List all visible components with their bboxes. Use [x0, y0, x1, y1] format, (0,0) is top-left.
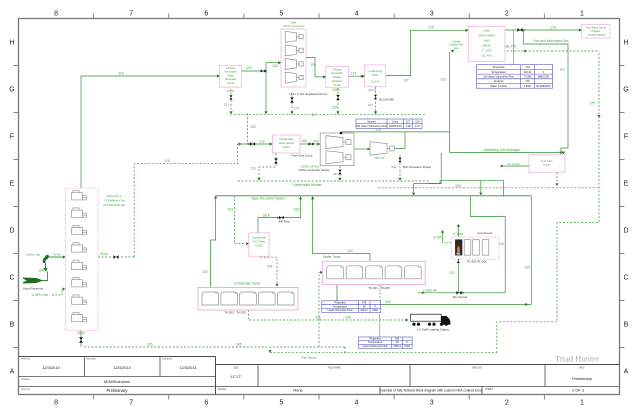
svg-text:D: D — [9, 228, 14, 235]
svg-text:Condensate: Condensate — [279, 137, 294, 141]
svg-text:D: D — [623, 228, 628, 235]
svg-text:ECON-NB: ECON-NB — [379, 98, 393, 102]
svg-text:Temperature: Temperature — [333, 305, 348, 308]
svg-text:Separator: Separator — [225, 77, 237, 81]
svg-text:2: 2 — [505, 11, 509, 18]
svg-text:176: 176 — [525, 79, 530, 83]
svg-text:176: 176 — [550, 25, 556, 29]
svg-text:TK-201 - TK-205: TK-201 - TK-205 — [224, 311, 246, 315]
svg-text:140: 140 — [347, 249, 353, 253]
svg-text:201: 201 — [340, 267, 343, 269]
svg-text:A: A — [10, 369, 15, 376]
svg-text:Comb Air: Comb Air — [423, 289, 437, 293]
svg-text:Condensate: Condensate — [252, 235, 267, 239]
svg-text:G: G — [9, 87, 14, 94]
svg-text:Example of fully fictional bl: Example of fully fictional block diagram… — [380, 389, 483, 393]
svg-text:None: None — [293, 388, 303, 393]
svg-text:PRINTED: PRINTED — [21, 359, 31, 361]
svg-text:LWH4: LWH4 — [39, 269, 48, 273]
svg-text:E: E — [10, 181, 15, 188]
svg-text:MMSCFD: MMSCFD — [538, 75, 550, 79]
svg-text:Preliminary: Preliminary — [572, 376, 592, 381]
svg-text:3: 3 — [430, 11, 434, 18]
svg-text:221A: 221A — [227, 89, 235, 93]
svg-text:BP Reg: BP Reg — [279, 219, 290, 223]
svg-text:FRC Separator Shutup: FRC Separator Shutup — [403, 165, 432, 169]
svg-text:Triad Hunter: Triad Hunter — [555, 354, 599, 364]
svg-text:205: 205 — [418, 267, 421, 269]
svg-text:~ 78.2(3) MMscfd: ~ 78.2(3) MMscfd — [586, 34, 606, 37]
svg-text:230: 230 — [313, 139, 318, 143]
svg-text:MOST-A4553: MOST-A4553 — [478, 34, 495, 38]
svg-text:Filter: Filter — [372, 73, 378, 77]
svg-text:Vapor Recovery Header: Vapor Recovery Header — [251, 197, 286, 201]
svg-text:B: B — [10, 322, 15, 329]
svg-text:Fuel and Instrument Gas: Fuel and Instrument Gas — [533, 39, 568, 43]
svg-text:300A: 300A — [77, 331, 85, 335]
svg-text:8: 8 — [54, 400, 58, 407]
svg-text:Choke Top: Choke Top — [26, 253, 41, 257]
svg-text:C Vent: C Vent — [453, 232, 463, 236]
svg-text:REVISED: REVISED — [87, 359, 97, 361]
svg-text:Secondary: Secondary — [224, 70, 237, 74]
svg-text:G: G — [623, 87, 628, 94]
svg-text:3: 3 — [430, 400, 434, 407]
svg-text:TK-301 - TK-305: TK-301 - TK-305 — [368, 286, 390, 290]
svg-text:Mix Vented: Mix Vented — [453, 295, 468, 299]
svg-text:1981.1: 1981.1 — [360, 309, 368, 312]
svg-text:Well: Well — [484, 39, 490, 43]
svg-text:VL101: VL101 — [227, 81, 235, 85]
svg-text:Properties: Properties — [493, 65, 506, 69]
svg-text:305: 305 — [147, 342, 153, 346]
svg-text:OWNER: OWNER — [21, 379, 30, 381]
svg-text:B: B — [624, 322, 629, 329]
svg-text:210: 210 — [164, 159, 170, 163]
svg-text:VL121: VL121 — [333, 84, 341, 87]
svg-text:Secondary: Secondary — [331, 72, 344, 75]
svg-text:161A: 161A — [262, 213, 270, 217]
svg-text:7: 7 — [129, 400, 133, 407]
svg-text:E: E — [624, 181, 629, 188]
svg-text:214: 214 — [293, 107, 299, 111]
svg-text:Gas: Gas — [454, 46, 460, 50]
svg-text:202: 202 — [251, 125, 257, 129]
svg-text:2-Phase: 2-Phase — [332, 68, 342, 71]
svg-text:290: 290 — [455, 184, 461, 188]
svg-text:SHEET: SHEET — [485, 388, 494, 391]
svg-text:Separator: Separator — [332, 80, 343, 83]
svg-text:102: 102 — [440, 78, 446, 82]
svg-text:Coalescing: Coalescing — [369, 69, 383, 73]
svg-text:Units: Units — [392, 119, 399, 123]
svg-text:(Inlet): (Inlet) — [227, 73, 234, 77]
svg-text:213: 213 — [250, 167, 256, 171]
svg-text:240: 240 — [362, 301, 367, 304]
svg-text:117: 117 — [311, 113, 316, 117]
svg-text:CP101 (x1) Drum: CP101 (x1) Drum — [283, 24, 305, 28]
svg-text:MGMSolutions: MGMSolutions — [104, 379, 130, 384]
svg-text:910A: 910A — [100, 252, 108, 256]
svg-text:2 OF 3: 2 OF 3 — [572, 388, 585, 393]
svg-text:1: 1 — [580, 11, 584, 18]
svg-text:Temperature: Temperature — [368, 341, 383, 344]
svg-text:203: 203 — [228, 207, 234, 211]
svg-text:73.995: 73.995 — [524, 75, 532, 79]
svg-text:203: 203 — [379, 267, 382, 269]
svg-text:Pipeline: Pipeline — [591, 30, 601, 33]
svg-text:To Union: To Union — [508, 162, 520, 166]
svg-text:DWG BY: DWG BY — [21, 389, 30, 391]
svg-text:2-Phase: 2-Phase — [226, 66, 236, 70]
svg-text:6: 6 — [204, 400, 208, 407]
svg-text:Flash Gas Comp: Flash Gas Comp — [292, 154, 313, 158]
svg-text:Temperature: Temperature — [491, 70, 506, 74]
svg-text:JT100: JT100 — [543, 163, 551, 167]
svg-text:113: 113 — [559, 68, 564, 72]
svg-text:(Stable): (Stable) — [333, 76, 342, 79]
svg-text:Liquid Volumetric Flow: Liquid Volumetric Flow — [363, 345, 388, 348]
svg-text:Properties: Properties — [369, 337, 381, 340]
svg-text:2.08: 2.08 — [406, 124, 412, 128]
svg-text:12/3/2014: 12/3/2014 — [42, 365, 60, 370]
svg-text:CP301-CP302: CP301-CP302 — [301, 164, 320, 168]
svg-text:203A: 203A — [332, 88, 340, 92]
svg-text:Condensate Header: Condensate Header — [292, 183, 322, 187]
svg-text:120: 120 — [449, 271, 455, 275]
svg-text:163: 163 — [294, 208, 300, 212]
svg-text:4.3607: 4.3607 — [524, 84, 532, 88]
svg-text:205: 205 — [291, 293, 294, 295]
svg-text:330: 330 — [385, 300, 391, 304]
svg-text:204: 204 — [267, 265, 273, 269]
svg-text:175: 175 — [428, 26, 434, 30]
svg-text:204: 204 — [272, 293, 275, 295]
svg-text:42 W: 42 W — [53, 252, 60, 256]
svg-text:1-2 Stall Loading Station: 1-2 Stall Loading Station — [417, 328, 450, 332]
svg-text:FILE NAME: FILE NAME — [328, 367, 341, 370]
svg-text:120: 120 — [415, 119, 420, 123]
svg-text:110: 110 — [118, 72, 124, 76]
svg-text:Std Vapor Volumetric Flow: Std Vapor Volumetric Flow — [356, 124, 386, 128]
svg-text:C: C — [9, 275, 14, 282]
svg-text:5: 5 — [279, 11, 283, 18]
svg-text:VL241: VL241 — [282, 145, 290, 149]
svg-text:VOC Tower: VOC Tower — [252, 240, 265, 244]
svg-text:Utica LWY-1: Utica LWY-1 — [107, 194, 122, 198]
svg-text:bbl/d: bbl/d — [405, 345, 411, 348]
svg-text:lbm/MMSCF: lbm/MMSCF — [536, 84, 551, 88]
svg-text:6: 6 — [204, 11, 208, 18]
svg-text:CREATED: CREATED — [162, 358, 173, 361]
svg-text:231: 231 — [333, 172, 338, 176]
svg-text:VRU-D: VRU-D — [374, 156, 384, 160]
svg-text:221: 221 — [224, 103, 229, 107]
svg-text:117: 117 — [406, 119, 411, 123]
svg-text:4: 4 — [355, 11, 359, 18]
svg-text:11"17": 11"17" — [230, 374, 242, 379]
svg-text:5: 5 — [279, 400, 283, 407]
svg-text:C: C — [623, 275, 628, 282]
svg-text:127: 127 — [351, 71, 357, 75]
svg-text:Names: Names — [367, 119, 376, 123]
svg-text:Marketing Gas Averager: Marketing Gas Averager — [484, 148, 520, 152]
svg-text:176: 176 — [525, 65, 530, 69]
svg-text:318: 318 — [315, 316, 321, 320]
svg-text:207A: 207A — [368, 88, 376, 92]
svg-text:7: 7 — [129, 11, 133, 18]
svg-text:203: 203 — [253, 293, 256, 295]
svg-text:SCALE: SCALE — [218, 388, 226, 391]
svg-text:240: 240 — [345, 316, 351, 320]
svg-text:F: F — [624, 134, 628, 141]
svg-text:VL531: VL531 — [255, 244, 263, 248]
svg-text:Liquid Volumetric Flow: Liquid Volumetric Flow — [328, 309, 353, 312]
svg-text:Flash Vessel: Flash Vessel — [279, 141, 294, 145]
svg-text:Combustor: Combustor — [477, 231, 492, 235]
svg-text:202: 202 — [234, 293, 237, 295]
svg-text:227: 227 — [368, 103, 373, 107]
svg-text:115: 115 — [202, 270, 207, 274]
svg-text:110.42: 110.42 — [524, 70, 532, 74]
svg-text:VL131: VL131 — [371, 79, 379, 83]
svg-text:A: A — [624, 369, 629, 376]
svg-text:1: 1 — [580, 400, 584, 407]
svg-text:202: 202 — [359, 267, 362, 269]
svg-text:Properties: Properties — [334, 301, 346, 304]
svg-text:8: 8 — [54, 11, 58, 18]
svg-text:Preliminary: Preliminary — [107, 388, 129, 393]
svg-text:PW Studio: PW Studio — [301, 356, 316, 360]
svg-text:124: 124 — [272, 64, 278, 68]
svg-text:201: 201 — [215, 293, 218, 295]
svg-text:212: 212 — [259, 139, 265, 143]
svg-text:(MMSCFD): (MMSCFD) — [389, 124, 402, 128]
svg-text:Water Tanks: Water Tanks — [323, 255, 341, 259]
svg-text:bbl/d: bbl/d — [373, 309, 379, 312]
svg-text:341: 341 — [391, 165, 397, 169]
svg-text:225: 225 — [332, 106, 338, 110]
svg-text:(7, 10%): (7, 10%) — [482, 49, 492, 53]
svg-text:1 Box: 1 Box — [483, 29, 491, 33]
svg-text:1984.1: 1984.1 — [393, 345, 401, 348]
svg-text:REV: REV — [580, 367, 585, 370]
svg-text:12/3/2014: 12/3/2014 — [113, 365, 131, 370]
svg-text:DWG NO: DWG NO — [472, 367, 482, 370]
svg-text:H: H — [9, 40, 14, 47]
svg-text:Analysis: Analysis — [494, 79, 504, 83]
svg-text:1.5 MMBtu/hr Trg: 1.5 MMBtu/hr Trg — [104, 198, 125, 202]
svg-text:(23, 4%): (23, 4%) — [482, 54, 492, 58]
svg-text:160: 160 — [301, 139, 307, 143]
svg-text:Std Vapor Volumetric Flow: Std Vapor Volumetric Flow — [483, 75, 513, 79]
svg-text:Utica Reservoir: Utica Reservoir — [23, 287, 44, 291]
svg-text:375: 375 — [590, 102, 596, 106]
svg-text:107: 107 — [403, 79, 409, 83]
svg-text:Condensate Tanks: Condensate Tanks — [234, 281, 261, 285]
svg-text:12/3/2014: 12/3/2014 — [179, 365, 197, 370]
svg-text:0.47: 0.47 — [415, 124, 421, 128]
svg-text:Q Off: Q Off — [433, 236, 441, 240]
svg-text:204: 204 — [398, 267, 401, 269]
svg-text:U GPU Hire: U GPU Hire — [32, 293, 49, 297]
svg-text:DB102: DB102 — [482, 44, 491, 48]
svg-text:SIZE: SIZE — [233, 367, 239, 370]
svg-text:F: F — [10, 134, 14, 141]
svg-text:Water Content: Water Content — [490, 84, 507, 88]
svg-text:PL-501-PL-506: PL-501-PL-506 — [467, 259, 487, 263]
svg-text:106: 106 — [524, 266, 530, 270]
svg-text:125: 125 — [310, 63, 316, 67]
svg-text:Flow Sales Gas to: Flow Sales Gas to — [586, 27, 607, 30]
svg-text:120: 120 — [246, 66, 252, 70]
svg-text:CP1x C-Pts Separator Dump: CP1x C-Pts Separator Dump — [289, 92, 328, 96]
svg-text:4: 4 — [355, 400, 359, 407]
svg-text:2: 2 — [505, 400, 509, 407]
svg-text:(20) 500 SGD 100: (20) 500 SGD 100 — [103, 203, 125, 207]
svg-text:240: 240 — [395, 337, 400, 340]
svg-text:CP30x Suspender Shutup: CP30x Suspender Shutup — [298, 168, 330, 172]
svg-text:H: H — [623, 40, 628, 47]
svg-text:305: 305 — [236, 342, 242, 346]
